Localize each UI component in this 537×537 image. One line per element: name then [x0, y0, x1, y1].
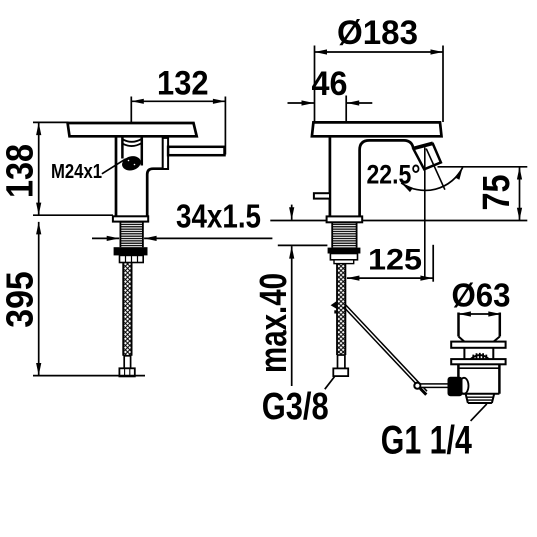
pivot ring joint — [414, 383, 420, 389]
svg-text:max.40: max.40 — [253, 273, 295, 373]
faucet body (side view) — [116, 136, 163, 216]
cap taper — [459, 337, 500, 342]
pivot entry ellipse on drain body — [460, 378, 469, 394]
threaded shank 34x1.5 (side view) — [120, 222, 142, 248]
hose end nut G3/8 (side view) — [119, 368, 134, 376]
hose end neck (front view) — [338, 355, 345, 368]
svg-text:34x1.5: 34x1.5 — [176, 197, 261, 234]
svg-text:132: 132 — [157, 64, 209, 102]
dimension 125 — [347, 245, 433, 282]
dimension 34x1.5 — [92, 237, 272, 239]
dimension max.40 — [270, 205, 327, 386]
dimension 132 — [131, 97, 225, 155]
pop-up transfer rod (diagonal) — [344, 305, 427, 393]
handle joint line — [413, 143, 433, 148]
flexible braided hose (side view) — [123, 263, 131, 356]
horizontal pivot rod — [421, 384, 450, 388]
hose end neck (side view) — [124, 356, 130, 369]
svg-text:M24x1: M24x1 — [51, 161, 102, 183]
leader G1 1/4 — [471, 404, 487, 421]
leader G3/8 — [325, 377, 335, 390]
label M24x1 with leader — [102, 159, 126, 174]
pop-up rod clamp on hose — [331, 301, 337, 314]
crown / castellated overflow — [471, 353, 490, 359]
handle axis line 22.5deg — [426, 149, 445, 190]
lower flange ring — [451, 359, 505, 364]
svg-text:46: 46 — [312, 65, 348, 103]
dimension 138 — [33, 122, 113, 215]
angle arc 22.5deg — [401, 167, 463, 190]
dimension 46 — [288, 96, 373, 123]
svg-text:395: 395 — [0, 271, 42, 328]
svg-text:75: 75 — [476, 175, 518, 211]
mounting flange (front view) — [327, 216, 363, 222]
svg-text:Ø183: Ø183 — [337, 14, 418, 52]
svg-text:125: 125 — [368, 244, 422, 277]
upper flange ring — [451, 342, 505, 348]
spout plate (side view) — [68, 123, 197, 136]
faucet body (front view) — [330, 136, 413, 216]
svg-text:G1 1/4: G1 1/4 — [381, 419, 473, 463]
rod tip beyond pivot ring — [420, 388, 426, 394]
spout plate (front view) — [312, 122, 442, 136]
svg-text:Ø63: Ø63 — [452, 277, 511, 314]
svg-text:G3/8: G3/8 — [262, 386, 329, 428]
tailpiece (side view) — [120, 255, 144, 262]
locking nut (front view, dark) — [328, 248, 361, 254]
dimension 395 — [33, 222, 145, 376]
handle lever (side view) — [168, 147, 224, 155]
svg-text:138: 138 — [0, 144, 42, 198]
threaded shank (front view) — [332, 222, 356, 247]
neck between rings — [464, 348, 493, 359]
drain body — [458, 364, 499, 394]
svg-text:22.5°: 22.5° — [367, 159, 421, 189]
handle mount bar (side view) — [163, 138, 168, 169]
handle (front view, tilted 22.5deg) — [414, 144, 441, 169]
mounting flange (side view) — [113, 216, 148, 221]
tailpiece (front view) — [330, 254, 357, 264]
locking nut (side view, dark) — [114, 247, 148, 255]
dimension Ø183 — [315, 46, 444, 123]
dimension 75 — [362, 167, 527, 221]
drain outlet G1 1/4 — [466, 394, 495, 403]
vertical reference line — [424, 148, 426, 280]
drain plug cap with dim and label Ø63 — [458, 313, 500, 337]
hose end nut G3/8 (front view) — [333, 368, 348, 376]
pop-up rod knob (front view) — [314, 193, 330, 198]
pivot nut (dark) — [448, 377, 463, 396]
aerator M24x1 (side view) — [120, 137, 142, 173]
flexible braided hose (front view) — [337, 264, 345, 355]
